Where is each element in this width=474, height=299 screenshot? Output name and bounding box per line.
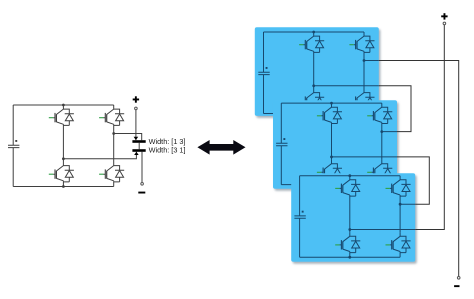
svg-text:Width: [3 1]: Width: [3 1]	[149, 146, 186, 155]
